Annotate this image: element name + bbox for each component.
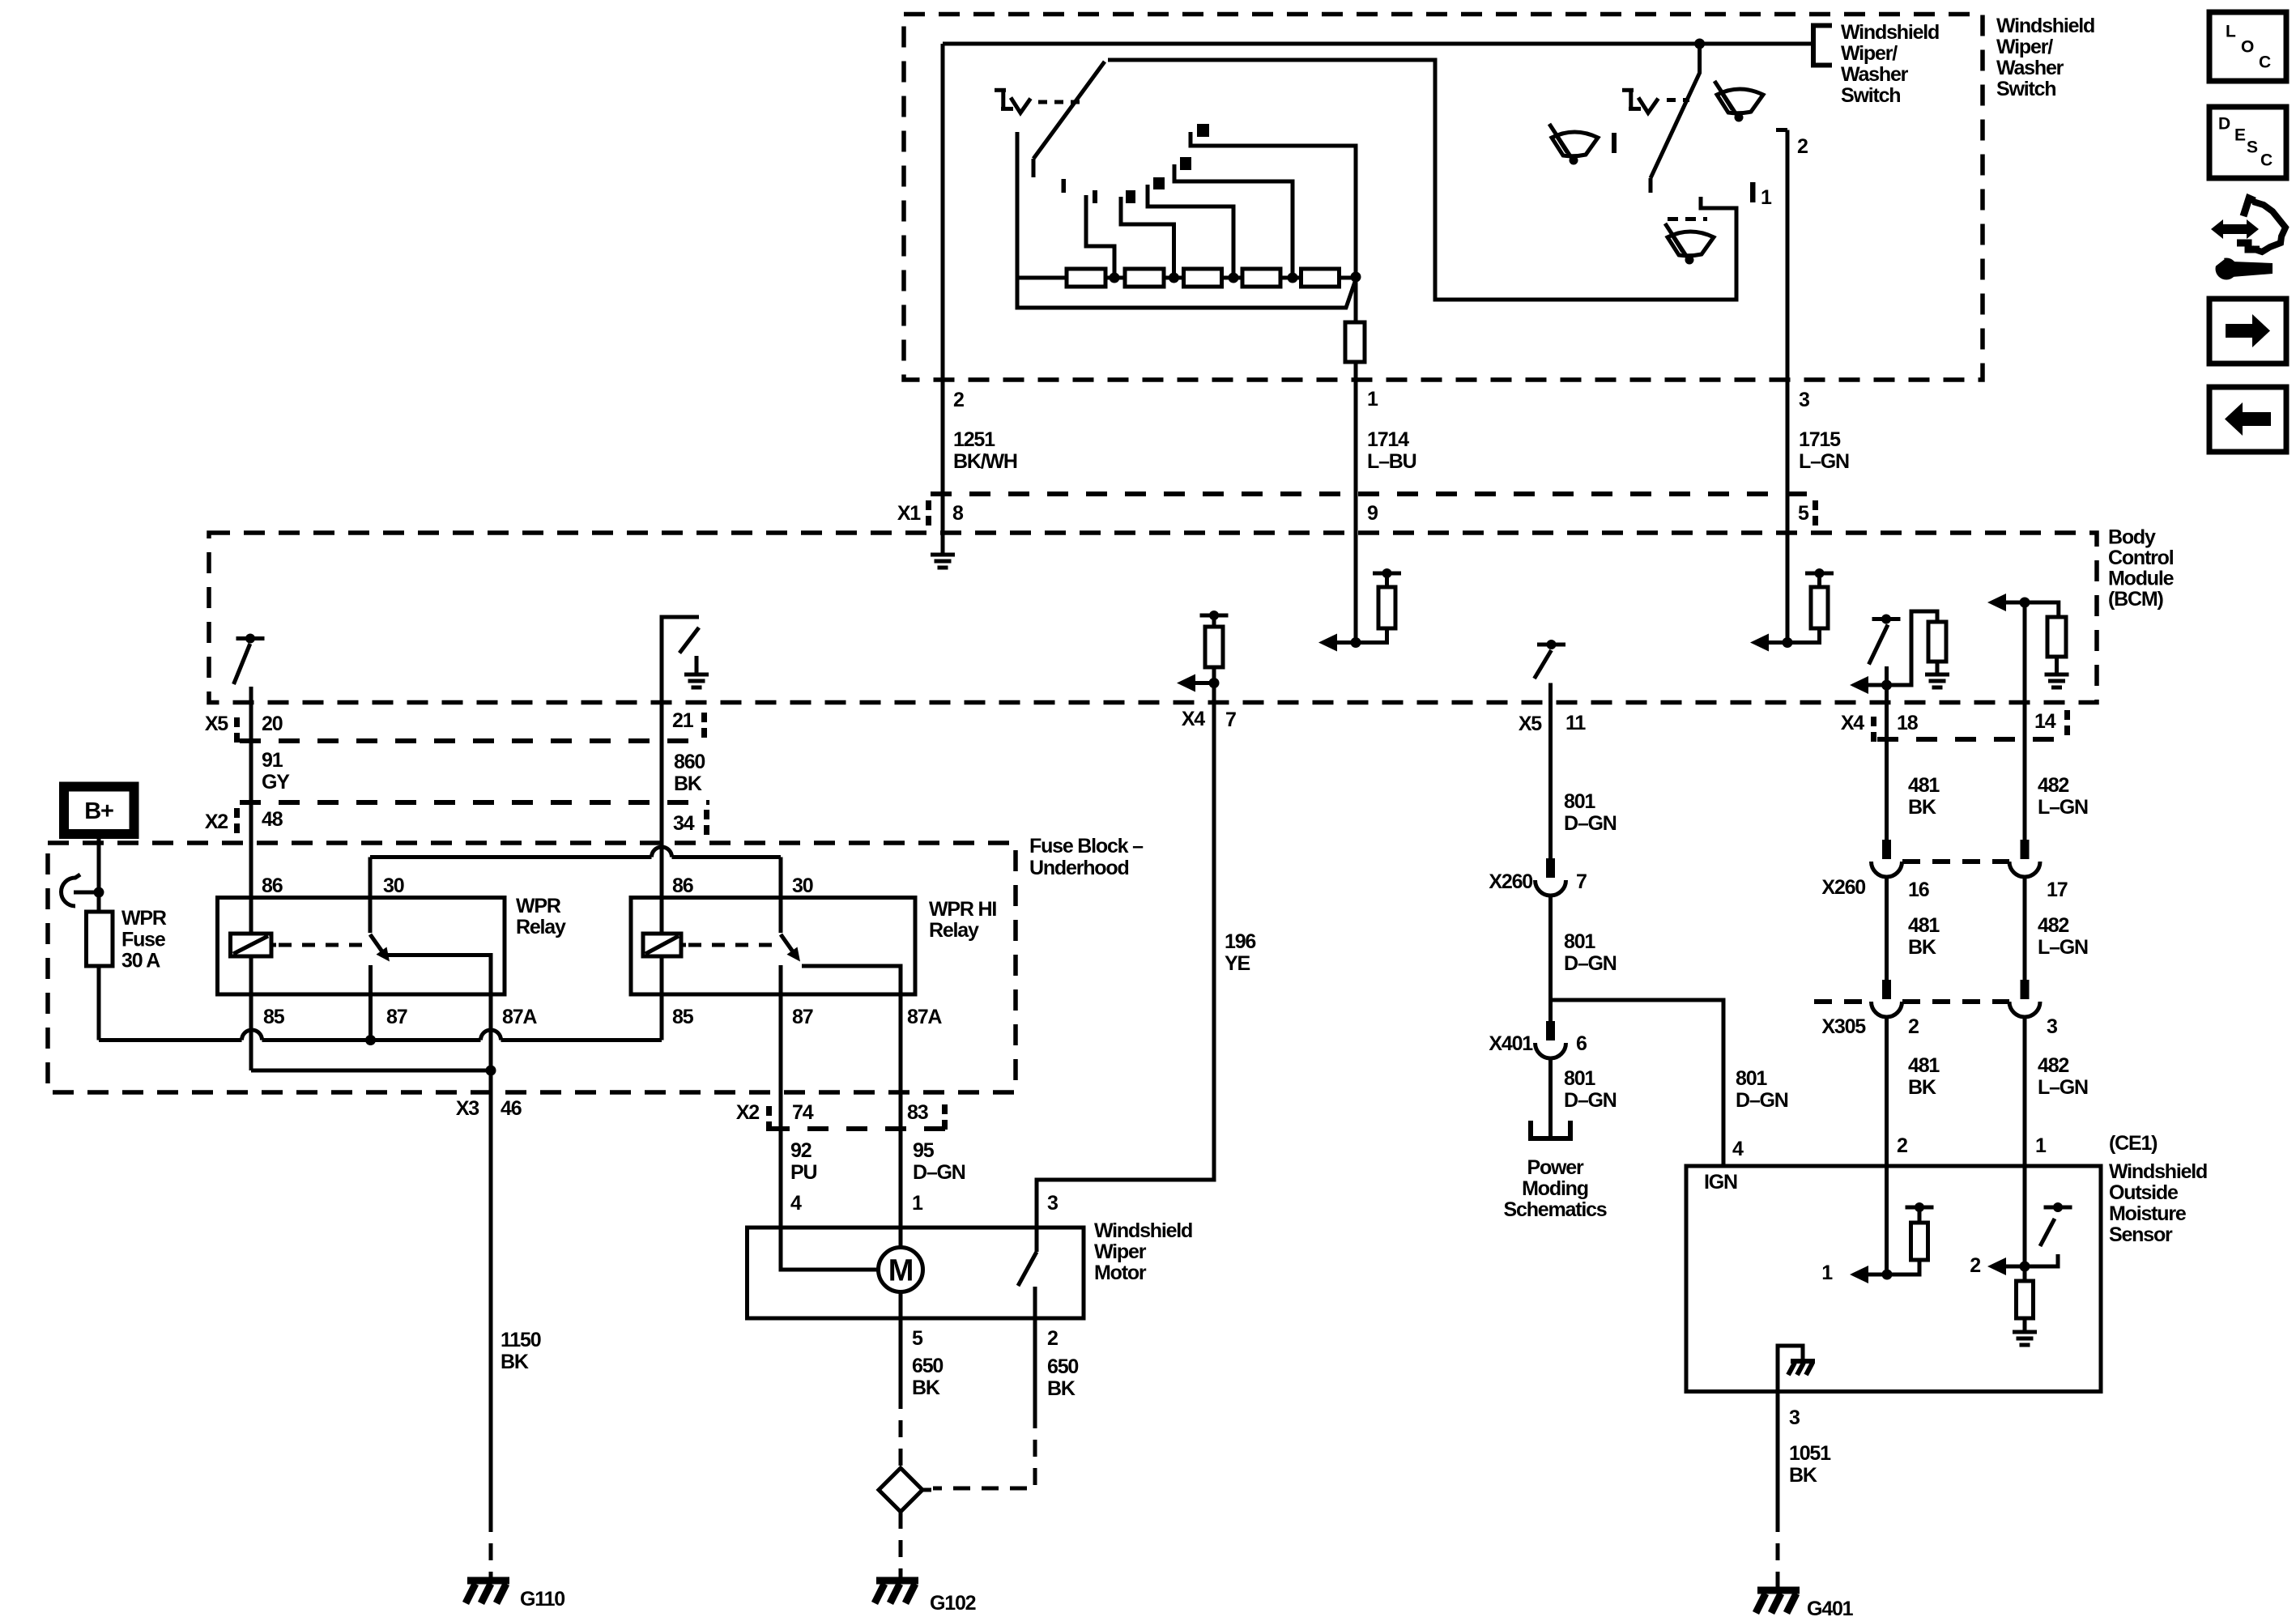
sensor input 1 (on 481) [1850, 1202, 1934, 1283]
rotary switch sub-box left/bottom wire [1017, 132, 1356, 308]
label 95 D-GN [913, 1139, 965, 1184]
svg-text:2: 2 [953, 389, 964, 411]
wire 801 D-GN (X5-11 down) [1548, 683, 1553, 859]
svg-text:650: 650 [1047, 1355, 1078, 1378]
svg-text:14: 14 [2034, 710, 2056, 733]
motor armature feed (pin 4 to M) [781, 1228, 879, 1270]
svg-text:5: 5 [912, 1327, 923, 1350]
svg-text:S: S [2247, 138, 2258, 156]
svg-text:X4: X4 [1182, 708, 1205, 730]
svg-text:Sensor: Sensor [2109, 1223, 2173, 1246]
svg-text:X2: X2 [205, 811, 228, 833]
svg-text:7: 7 [1576, 870, 1587, 893]
wire 1251 BK/WH (pin 2 to BCM ground) [941, 44, 945, 553]
svg-text:2: 2 [1797, 135, 1808, 158]
label 650 BK (pin2) [1047, 1355, 1078, 1400]
svg-text:Windshield: Windshield [1996, 15, 2094, 37]
wire 30 feed [779, 857, 783, 934]
junction dots on resistor chain [1110, 272, 1361, 283]
BCM output driver at X4-7 (196 YE) [1177, 611, 1229, 692]
30 bus between relays (hops 86 wire) [370, 855, 652, 859]
BCM switch to ground at 21 [662, 617, 709, 703]
resistor R4 [1242, 269, 1280, 287]
svg-text:1: 1 [1367, 388, 1378, 411]
svg-text:WPR: WPR [121, 907, 167, 930]
in-line connector X260 pin 16 [1882, 840, 1891, 859]
step wire S1 [1086, 195, 1114, 274]
label: Body Control Module (BCM) [2108, 526, 2175, 611]
svg-text:1: 1 [1821, 1262, 1833, 1284]
svg-text:Wiper/: Wiper/ [1996, 36, 2053, 58]
svg-text:9: 9 [1367, 502, 1378, 525]
riser L1 to 85 HI [660, 994, 664, 1040]
svg-text:PU: PU [790, 1161, 816, 1184]
svg-text:BK: BK [674, 772, 702, 795]
dashed to G401 [1776, 1515, 1780, 1589]
svg-text:21: 21 [672, 709, 694, 732]
svg-text:Schematics: Schematics [1504, 1198, 1607, 1221]
svg-text:G401: G401 [1807, 1598, 1854, 1617]
wire: line B switch body outline [1108, 60, 1736, 300]
svg-text:X305: X305 [1821, 1015, 1866, 1038]
svg-text:BK/WH: BK/WH [953, 450, 1017, 473]
svg-text:Fuse: Fuse [121, 929, 166, 951]
X2 bracket right [704, 810, 709, 819]
svg-text:6: 6 [1576, 1032, 1587, 1055]
svg-text:3: 3 [2047, 1015, 2057, 1038]
wire 482 into sensor [2023, 1166, 2027, 1266]
svg-text:91: 91 [262, 749, 283, 772]
svg-text:L–GN: L–GN [2038, 1076, 2088, 1099]
svg-text:87: 87 [792, 1006, 813, 1028]
svg-text:16: 16 [1908, 879, 1929, 901]
label: Windshield Wiper/Washer Switch (outside) [1996, 15, 2094, 100]
off-page connector: Power Moding Schematics [1531, 1121, 1570, 1138]
in-line connector X260 pin 7 [1546, 858, 1555, 878]
svg-text:20: 20 [262, 713, 283, 735]
wire 1051 BK [1776, 1392, 1780, 1516]
Body Control Module (BCM) dashed box [209, 533, 2097, 703]
wire 5 (M to ground) [899, 1292, 903, 1319]
svg-text:2: 2 [1897, 1134, 1907, 1157]
WPR HI coil [660, 934, 664, 956]
svg-text:3: 3 [1047, 1192, 1058, 1215]
sensor switch output 2 (on 482) [1987, 1202, 2072, 1275]
wiper icon B (high speed) [1715, 81, 1763, 122]
wire 482 L-GN (14 to sensor pin 1) [2023, 602, 2027, 840]
svg-text:BK: BK [1047, 1377, 1076, 1400]
label 1251 BK/WH [953, 428, 1017, 473]
X2 dotted line [769, 1126, 948, 1131]
svg-text:X260: X260 [1821, 876, 1865, 899]
label 92 PU [790, 1139, 816, 1184]
node 87A on L2 [486, 1066, 496, 1076]
wire 85 HI [660, 956, 664, 994]
svg-text:87A: 87A [907, 1006, 942, 1028]
svg-text:B+: B+ [84, 798, 113, 824]
contact T5 [1197, 124, 1209, 137]
svg-text:C: C [2260, 151, 2273, 169]
svg-text:D–GN: D–GN [1736, 1089, 1788, 1112]
branch to moisture sensor IGN [1551, 1000, 1724, 1166]
svg-text:86: 86 [672, 874, 693, 897]
battery feed B+ [64, 787, 134, 835]
label 801 D-GN [1564, 790, 1617, 835]
svg-text:WPR: WPR [516, 895, 561, 917]
svg-text:481: 481 [1908, 774, 1940, 797]
resistor R3 [1184, 269, 1222, 287]
svg-text:D: D [2218, 114, 2230, 133]
Windshield Wiper Motor box [748, 1228, 1084, 1318]
windshield wiper/washer switch assembly (dashed box) [904, 15, 1983, 381]
wire 801 D-GN (to X401) [1548, 894, 1553, 1021]
svg-text:34: 34 [673, 812, 695, 835]
svg-text:86: 86 [262, 874, 283, 897]
label: Windshield Wiper/Washer Switch (inside) [1841, 21, 1939, 107]
washer switch arm (right) [1651, 46, 1700, 193]
X2 bracket left [234, 808, 240, 818]
BCM switch at X5-20 [234, 634, 265, 703]
svg-text:Windshield: Windshield [1094, 1219, 1192, 1242]
step wire S3 [1148, 185, 1233, 274]
svg-text:801: 801 [1564, 930, 1595, 953]
svg-text:L–GN: L–GN [2038, 936, 2088, 959]
svg-text:E: E [2234, 126, 2246, 144]
bus L2: 85 to 87A [251, 1069, 491, 1073]
svg-text:WPR HI: WPR HI [929, 898, 996, 921]
svg-text:801: 801 [1564, 1067, 1595, 1090]
svg-text:G110: G110 [520, 1588, 564, 1611]
X4 bracket left [1871, 717, 1876, 726]
wire 481 BK (X4-18 to sensor pin 2) [1885, 685, 1889, 840]
svg-text:87A: 87A [502, 1006, 537, 1028]
svg-text:4: 4 [790, 1192, 802, 1215]
X1 bracket left [926, 500, 931, 510]
level mark I [1612, 133, 1617, 153]
wire 860 BK (21 to X2-34) [660, 703, 664, 934]
svg-text:482: 482 [2038, 1054, 2068, 1077]
svg-text:85: 85 [672, 1006, 694, 1028]
wire 91 GY (X5-20 to WPR relay 86) [249, 687, 253, 934]
svg-text:O: O [2241, 37, 2254, 56]
svg-text:Windshield: Windshield [2109, 1160, 2207, 1183]
svg-text:BK: BK [1908, 796, 1936, 819]
svg-text:92: 92 [790, 1139, 811, 1162]
svg-text:D–GN: D–GN [913, 1161, 965, 1184]
in-line connector X305 pin 2 [1882, 980, 1891, 999]
contact T3 [1153, 177, 1165, 189]
svg-text:4: 4 [1732, 1138, 1744, 1160]
svg-text:Switch: Switch [1996, 78, 2055, 100]
svg-text:3: 3 [1799, 389, 1809, 411]
ground G401 [1757, 1587, 1800, 1594]
wire 87A HI (to X2-83, 95 D-GN) [899, 994, 903, 1248]
svg-text:46: 46 [501, 1097, 522, 1120]
WPR relay armature [370, 934, 386, 956]
svg-text:1150: 1150 [501, 1329, 541, 1351]
svg-text:1: 1 [1761, 186, 1772, 209]
wire 87 [368, 965, 373, 1040]
dashed wire to G110 [489, 1515, 493, 1579]
BCM switch at X5-11 [1535, 640, 1566, 703]
svg-text:Relay: Relay [516, 916, 566, 938]
X4 bracket right [2064, 710, 2070, 720]
svg-text:Control: Control [2108, 547, 2174, 569]
BCM input w/ pull-up at X1-9 [1318, 568, 1401, 652]
icon: LOC box [2209, 12, 2286, 81]
svg-text:X2: X2 [736, 1101, 759, 1124]
svg-text:Moisture: Moisture [2109, 1202, 2187, 1225]
87A contact line [802, 966, 901, 994]
svg-text:D–GN: D–GN [1564, 812, 1617, 835]
splice S (diamond) [879, 1468, 922, 1512]
svg-text:X1: X1 [897, 502, 921, 525]
svg-text:IGN: IGN [1704, 1171, 1737, 1194]
svg-text:74: 74 [792, 1101, 814, 1124]
in-line connector X260 pin 17 [2021, 840, 2030, 859]
WPR Fuse 30 A [87, 912, 113, 966]
level mark I1 [1750, 182, 1756, 202]
wire 87A down (1150 BK) [489, 955, 493, 1516]
resistor R2 [1125, 269, 1164, 287]
park switch contact to pin 2 [1033, 1287, 1037, 1318]
park switch arm [1018, 1252, 1037, 1286]
svg-text:83: 83 [907, 1101, 928, 1124]
svg-text:D–GN: D–GN [1564, 1089, 1617, 1112]
icon: diagnostic pointer with double arrow and wrench [2209, 198, 2285, 280]
svg-text:2: 2 [1908, 1015, 1919, 1038]
BCM input w/ pull-up at X1-5 [1750, 568, 1834, 652]
svg-text:481: 481 [1908, 1054, 1940, 1077]
svg-text:18: 18 [1897, 712, 1919, 734]
dashed splice to G102 [899, 1512, 903, 1579]
dashed to splice [899, 1392, 903, 1466]
BCM ground at X1-8 [931, 553, 955, 557]
svg-text:Windshield: Windshield [1841, 21, 1939, 44]
svg-text:482: 482 [2038, 774, 2068, 797]
svg-text:X5: X5 [205, 713, 228, 735]
wire 30 feed [368, 857, 373, 934]
svg-text:1251: 1251 [953, 428, 995, 451]
wiper icon A (low speed) [1549, 124, 1598, 165]
svg-text:X260: X260 [1489, 870, 1532, 893]
svg-text:196: 196 [1225, 930, 1255, 953]
svg-text:G102: G102 [930, 1592, 976, 1615]
X305 dotted stub left [1814, 999, 1872, 1004]
dashed link park to arm (left) [1038, 100, 1080, 104]
svg-text:801: 801 [1736, 1067, 1767, 1090]
svg-text:Wiper/: Wiper/ [1841, 42, 1898, 65]
svg-text:48: 48 [262, 808, 283, 831]
bus L1: fuse to 87 and 85HI (hops 85, 87A) [99, 1038, 242, 1042]
label 91 GY [262, 749, 290, 794]
node 87 on L1 [365, 1035, 376, 1045]
dashed link park to arm (right) [1667, 98, 1689, 102]
ground G110 [467, 1577, 509, 1585]
WPR HI armature [781, 934, 796, 956]
svg-text:Fuse Block –: Fuse Block – [1029, 835, 1144, 857]
motor M [879, 1248, 923, 1292]
coil-arm dashed link [688, 943, 775, 947]
svg-text:C: C [2259, 53, 2271, 71]
svg-text:17: 17 [2047, 879, 2068, 901]
step wire S4 [1174, 164, 1293, 274]
svg-text:5: 5 [1798, 502, 1809, 525]
svg-text:X5: X5 [1519, 713, 1542, 735]
svg-text:BK: BK [1789, 1464, 1817, 1487]
svg-text:Washer: Washer [1996, 57, 2064, 79]
svg-text:Relay: Relay [929, 919, 979, 942]
connector X5 line [240, 738, 706, 743]
svg-text:11: 11 [1565, 712, 1586, 734]
svg-text:1051: 1051 [1789, 1442, 1831, 1465]
X5 bracket left [234, 717, 240, 727]
rotary wiper switch arm (left) [1033, 62, 1105, 177]
svg-text:8: 8 [952, 502, 964, 525]
svg-text:7: 7 [1225, 709, 1236, 731]
wire 196 YE from X4-7 to wiper motor pin 3 [1037, 683, 1214, 1253]
svg-text:L–GN: L–GN [2038, 796, 2088, 819]
resistor R1 [1067, 269, 1105, 287]
X5 bracket right [701, 713, 707, 722]
svg-text:L–BU: L–BU [1367, 450, 1416, 473]
svg-text:Moding: Moding [1522, 1177, 1588, 1200]
svg-text:Wiper: Wiper [1094, 1240, 1147, 1263]
connector X1 line [931, 491, 1818, 496]
87A contact line [381, 955, 491, 995]
svg-text:GY: GY [262, 771, 290, 794]
label 1714 L-BU [1367, 428, 1416, 473]
wire 650 BK from pin 5 [899, 1318, 903, 1392]
label 860 BK [674, 751, 705, 795]
svg-text:801: 801 [1564, 790, 1595, 813]
svg-text:Underhood: Underhood [1029, 857, 1129, 879]
wire 87 HI (to X2-74, 92 PU) [779, 965, 783, 1228]
node at breaker [94, 887, 104, 898]
svg-text:BK: BK [501, 1351, 529, 1373]
resistor (switch pulse) [1345, 322, 1365, 362]
connector X2 line [240, 800, 709, 805]
sensor chassis ground (pin 3) [1778, 1346, 1803, 1392]
svg-text:87: 87 [386, 1006, 407, 1028]
svg-text:Motor: Motor [1094, 1262, 1147, 1284]
svg-text:Outside: Outside [2109, 1181, 2179, 1204]
X260 dotted link [1902, 859, 2009, 864]
svg-text:L–GN: L–GN [1799, 450, 1849, 473]
svg-text:BK: BK [1908, 1076, 1936, 1099]
WPR relay coil [249, 934, 253, 956]
motor park switch wire [1035, 1228, 1039, 1252]
svg-text:Module: Module [2108, 568, 2175, 590]
label 196 YE [1225, 930, 1255, 975]
dashes above washer icon [1668, 217, 1707, 221]
svg-text:95: 95 [913, 1139, 935, 1162]
svg-text:M: M [888, 1254, 913, 1288]
svg-text:Power: Power [1527, 1156, 1583, 1179]
X4 connector dotted outline [1877, 737, 2064, 742]
wire 481 into sensor [1885, 1166, 1889, 1274]
svg-text:1715: 1715 [1799, 428, 1841, 451]
connector bracket to switch label [1813, 26, 1832, 66]
BCM input at 14 [1987, 594, 2069, 687]
X1 bracket right [1813, 500, 1818, 510]
step wire S2 [1121, 197, 1174, 274]
park position symbol (left) [995, 88, 1006, 92]
wire 801 D-GN (to power moding) [1548, 1057, 1553, 1137]
svg-text:YE: YE [1225, 952, 1250, 975]
svg-text:482: 482 [2038, 914, 2068, 937]
label 650 BK (pin5) [912, 1355, 943, 1399]
svg-text:X401: X401 [1489, 1032, 1533, 1055]
X2 bracket left [766, 1106, 772, 1116]
label: Fuse Block - Underhood [1029, 835, 1144, 879]
label 1715 L-GN [1799, 428, 1849, 473]
svg-text:Switch: Switch [1841, 84, 1900, 107]
wire: switch common bus (line A) [943, 42, 1813, 46]
ground G102 [876, 1577, 918, 1585]
svg-text:D–GN: D–GN [1564, 952, 1617, 975]
svg-text:85: 85 [263, 1006, 285, 1028]
contact T1 [1093, 190, 1097, 203]
svg-text:(BCM): (BCM) [2108, 588, 2163, 611]
wiper icon C (washer) [1665, 223, 1714, 265]
svg-text:2: 2 [1047, 1327, 1058, 1350]
park position symbol (right) [1622, 88, 1634, 92]
BCM switch input at X4-18 [1850, 611, 1949, 694]
svg-text:30: 30 [792, 874, 813, 897]
label 1150 BK [501, 1329, 541, 1373]
svg-text:X3: X3 [456, 1097, 479, 1120]
svg-text:BK: BK [912, 1377, 940, 1399]
svg-text:X4: X4 [1841, 712, 1864, 734]
WPR HI Relay box [631, 898, 915, 995]
svg-text:Washer: Washer [1841, 63, 1909, 86]
svg-text:30: 30 [383, 874, 404, 897]
svg-text:481: 481 [1908, 914, 1940, 937]
contact T2 [1126, 190, 1135, 203]
icon: DESC box [2209, 107, 2286, 178]
svg-text:Body: Body [2108, 526, 2156, 549]
wire 85 (coil to L2) [249, 956, 253, 1070]
(CE1) Windshield Outside Moisture Sensor box [1686, 1166, 2101, 1392]
resistor chain bus [1017, 276, 1354, 280]
svg-text:1: 1 [2035, 1134, 2047, 1157]
icon: back arrow box [2209, 387, 2286, 452]
svg-text:BK: BK [1908, 936, 1936, 959]
X305 dotted link [1902, 999, 2009, 1004]
node: junction on common bus [1694, 39, 1705, 49]
svg-text:860: 860 [674, 751, 705, 773]
svg-text:30 A: 30 A [121, 950, 160, 972]
wire 1714 L-BU (pin 1) with in-line resistor [1354, 277, 1358, 322]
contact T4 [1180, 157, 1191, 170]
circuit breaker arc [62, 874, 81, 906]
resistor R5 [1301, 269, 1340, 287]
icon: next arrow box [2209, 299, 2286, 364]
X2 bracket right [942, 1104, 948, 1114]
WPR Relay box [218, 898, 505, 995]
in-line connector X401 pin 6 [1546, 1021, 1555, 1040]
svg-text:1714: 1714 [1367, 428, 1409, 451]
wire: washer output pin 2 (top) [1776, 128, 1787, 132]
svg-text:650: 650 [912, 1355, 943, 1377]
dashed 650 BK to splice [933, 1411, 1035, 1488]
svg-text:(CE1): (CE1) [2109, 1132, 2158, 1155]
wire fuse to 85/87A bus [97, 966, 101, 1040]
svg-text:L: L [2226, 22, 2236, 40]
svg-text:3: 3 [1789, 1406, 1800, 1429]
svg-text:1: 1 [912, 1192, 923, 1215]
